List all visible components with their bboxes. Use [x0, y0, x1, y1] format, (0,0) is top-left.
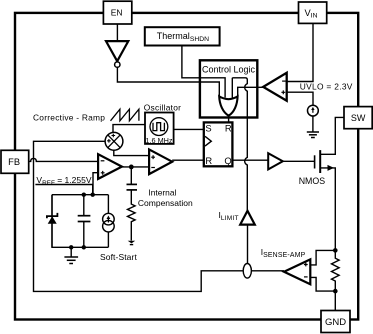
- svg-text:R: R: [225, 122, 232, 133]
- label Internal Compensation: [138, 188, 193, 208]
- error amp output wire and junction: [122, 165, 149, 170]
- svg-text:Corrective - Ramp: Corrective - Ramp: [33, 112, 105, 122]
- error amplifier: [98, 154, 122, 179]
- wire EN pin to inverter: [116, 24, 118, 41]
- inverter gate under EN: [106, 41, 128, 67]
- wire OR gate output to latch R input: [228, 116, 230, 123]
- label Soft-Start: [100, 252, 137, 262]
- svg-text:EN: EN: [111, 7, 123, 17]
- EN pin box: [103, 1, 131, 24]
- label UVLO = 2.3V: [300, 81, 353, 91]
- Control Logic box: [200, 60, 257, 117]
- wire ISENSE plus input to resistor top: [310, 250, 335, 265]
- svg-text:S: S: [205, 122, 211, 133]
- VIN pin box: [299, 2, 327, 23]
- svg-text:FB: FB: [8, 157, 20, 167]
- sense node ellipse: [243, 264, 251, 279]
- gate driver buffer: [268, 153, 283, 169]
- wire VIN to UVLO minus input: [287, 23, 313, 81]
- wire FB to error amp minus with hop: [29, 158, 98, 161]
- Oscillator label: [144, 103, 181, 113]
- wire summer output to PWM comparator plus: [114, 150, 149, 155]
- VREF node wire: [35, 173, 98, 195]
- svg-text:UVLO = 2.3V: UVLO = 2.3V: [300, 81, 353, 91]
- wire inverter output to Control Logic (EN net): [117, 67, 219, 97]
- svg-text:SW: SW: [351, 113, 366, 123]
- OR gate in Control Logic: [219, 96, 237, 115]
- Thermal SHDN box: [145, 27, 220, 45]
- NMOS transistor: [315, 117, 344, 245]
- wire Thermal SHDN to Control Logic: [182, 46, 225, 98]
- label Corrective - Ramp: [33, 112, 105, 122]
- wire oscillator to latch S input: [174, 128, 204, 130]
- soft-start capacitor: [78, 195, 91, 248]
- svg-text:Q: Q: [224, 155, 231, 166]
- soft-start network wires: [52, 185, 108, 250]
- Oscillator box: [145, 113, 174, 145]
- wire ISENSE minus input to resistor bottom: [310, 277, 335, 291]
- sense resistor: [332, 245, 340, 311]
- svg-text:Internal: Internal: [148, 188, 176, 198]
- corrective ramp sawtooth waveform: [111, 109, 139, 121]
- svg-text:Control Logic: Control Logic: [202, 65, 256, 75]
- wire oscillator to summer top input: [113, 125, 145, 133]
- ISENSE amplifier: [284, 259, 310, 284]
- svg-text:R: R: [205, 155, 212, 166]
- soft-start zener diode: [47, 195, 58, 248]
- PWM comparator: [149, 149, 172, 174]
- GND pin box: [321, 311, 350, 333]
- UVLO comparator U-V: [263, 73, 287, 101]
- ILIMIT comparator: [240, 211, 255, 225]
- summing junction (ramp summer): [105, 132, 123, 150]
- wire ILIMIT input to sense ellipse: [247, 225, 249, 264]
- SR latch box: [204, 122, 233, 166]
- label VREF = 1.255V: [36, 175, 91, 187]
- svg-text:NMOS: NMOS: [299, 176, 326, 186]
- svg-text:Soft-Start: Soft-Start: [100, 252, 137, 262]
- wire PWM output to latch R bottom input: [172, 159, 204, 161]
- svg-text:GND: GND: [325, 317, 346, 328]
- svg-text:Compensation: Compensation: [138, 198, 193, 208]
- wire driver to NMOS gate: [283, 160, 314, 162]
- soft-start current source: [103, 213, 115, 232]
- wire UVLO plus input to reference: [287, 92, 313, 105]
- wire ILIMIT output up into Control Logic with hops: [232, 78, 247, 211]
- internal compensation network: [127, 167, 138, 245]
- soft-start ground: [64, 247, 78, 263]
- wire reference to ground: [312, 116, 314, 132]
- svg-text:1.6 MHz: 1.6 MHz: [145, 136, 173, 145]
- current sense feedback wire (summer to sense amp): [34, 141, 285, 291]
- label ILIMIT: [219, 210, 239, 222]
- SW pin box: [344, 107, 372, 129]
- reference current source circle: [308, 105, 319, 116]
- label NMOS: [299, 176, 326, 186]
- svg-text:Oscillator: Oscillator: [144, 103, 181, 113]
- ground symbol below UVLO reference: [307, 132, 319, 138]
- wire UVLO output to Control Logic: [238, 87, 264, 97]
- wire latch Q output to gate driver: [232, 159, 268, 161]
- label ISENSE-AMP: [261, 247, 306, 259]
- FB pin box: [1, 150, 29, 173]
